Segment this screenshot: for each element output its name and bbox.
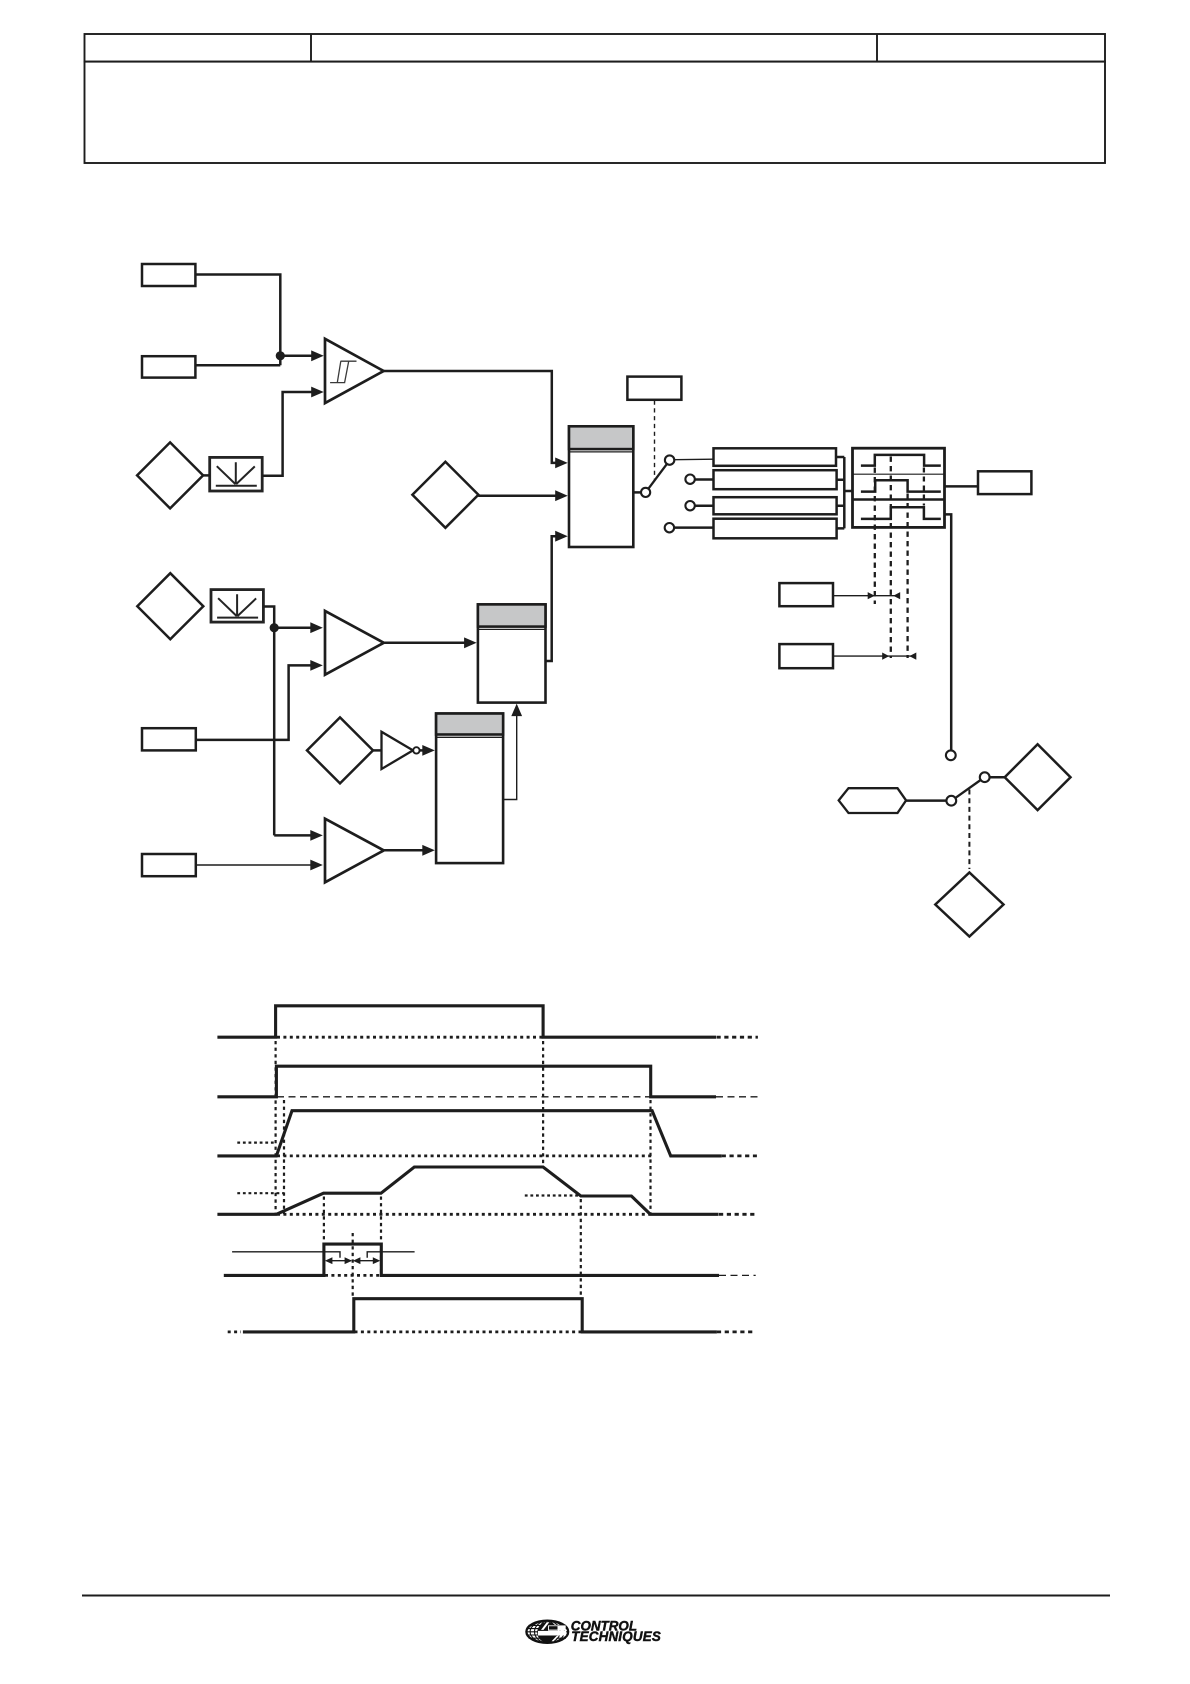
svg-text:TECHNIQUES: TECHNIQUES xyxy=(571,1629,661,1644)
